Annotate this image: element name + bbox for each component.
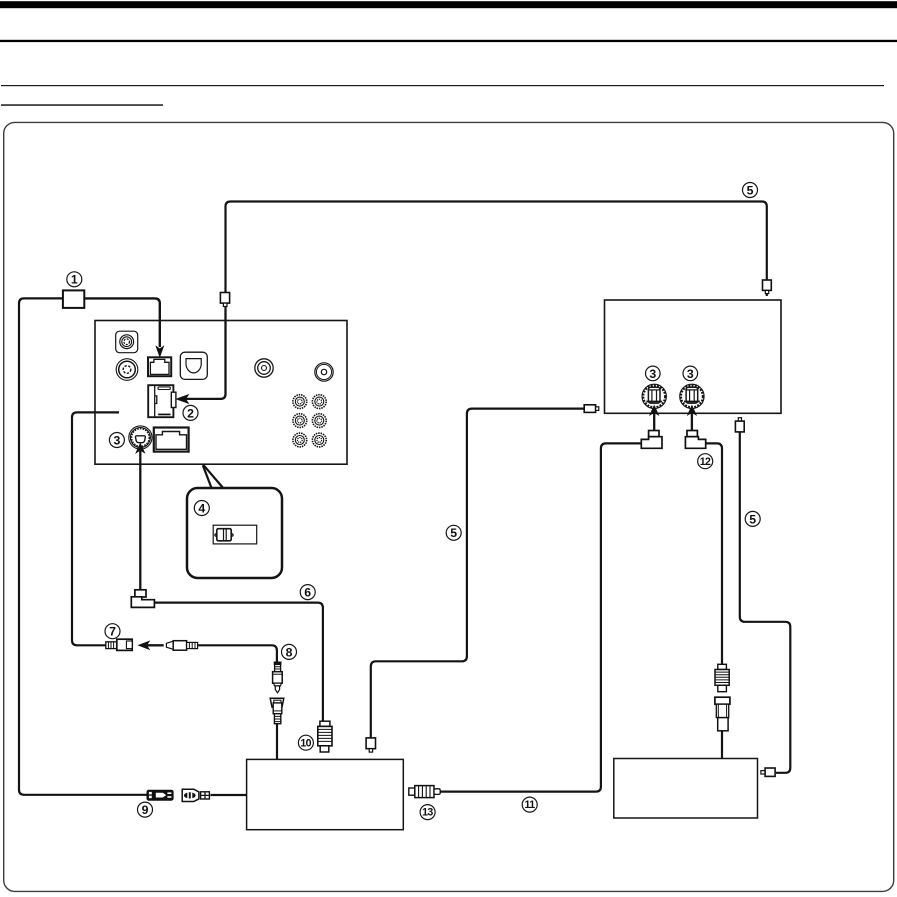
wire: item1 box left lead down-left to connector 9 xyxy=(19,298,148,794)
connector 10 multipin plug xyxy=(318,721,332,752)
multipin plug pointing down on cable 12 xyxy=(715,664,729,691)
svg-text:5: 5 xyxy=(749,512,756,526)
mini-DIN socket (cable 2 target) xyxy=(148,385,176,417)
connector 13 multipin plug xyxy=(409,786,440,798)
label 2 xyxy=(183,405,198,420)
svg-text:11: 11 xyxy=(525,799,536,811)
svg-text:5: 5 xyxy=(747,183,754,197)
label 5 top xyxy=(743,183,758,198)
svg-text:12: 12 xyxy=(700,456,711,468)
svg-text:2: 2 xyxy=(187,406,194,420)
left elbow plug under right box xyxy=(641,431,662,449)
svg-text:9: 9 xyxy=(142,803,149,817)
svg-text:5: 5 xyxy=(450,526,457,540)
label 12 xyxy=(698,454,713,469)
wire: arrow shaft into right DIN of right box xyxy=(691,413,693,431)
battery holder icon in bubble xyxy=(213,525,257,544)
page top thick rule xyxy=(0,1,897,8)
label 1 xyxy=(67,272,82,287)
plug into bottom-right box xyxy=(761,768,775,776)
label 13 xyxy=(420,805,435,820)
connector 7 assembly xyxy=(106,639,132,650)
svg-text:6: 6 xyxy=(304,586,311,600)
page second rule xyxy=(0,40,897,42)
arrow into RJ45 jack (cable 1) xyxy=(156,346,163,357)
arrow into left DIN socket xyxy=(650,406,659,415)
RCA jack grid 3x2 xyxy=(293,395,326,447)
svg-text:3: 3 xyxy=(113,433,120,447)
svg-text:13: 13 xyxy=(422,807,433,819)
wire: cable 2 drop to mini-DIN arrow xyxy=(185,310,226,399)
label 6 xyxy=(300,585,315,600)
DIN socket left in right box xyxy=(642,384,666,408)
large RCA jack center xyxy=(255,359,273,377)
mating socket pointing up xyxy=(270,698,284,723)
wire: cable 6 elbow to connector 10 xyxy=(154,603,323,722)
wire: item1 box right lead to head unit arrow xyxy=(84,298,160,347)
wire: cable 8 run xyxy=(198,645,277,662)
wire: cable 5 top run xyxy=(226,202,767,311)
connector 9 female spade xyxy=(147,790,173,800)
RJ45 jack (cable 1 target) xyxy=(148,357,171,376)
wire: cable 5 mid-left run with plug xyxy=(371,409,586,739)
wire: cable 11 run xyxy=(440,443,641,791)
svg-text:3: 3 xyxy=(649,367,656,381)
svg-text:4: 4 xyxy=(198,501,205,515)
item 1 square module xyxy=(63,290,84,308)
RCA jack below antenna xyxy=(116,359,138,381)
connector 9 male spade xyxy=(182,789,209,801)
bottom-right tuner box xyxy=(614,759,758,819)
DIN socket right in right box xyxy=(680,384,704,408)
wire: head unit stub down to connector 7 xyxy=(72,412,119,645)
label 9 xyxy=(138,802,153,817)
label 5 mid-left xyxy=(446,525,461,540)
svg-text:10: 10 xyxy=(300,737,311,749)
svg-text:1: 1 xyxy=(71,273,78,287)
plug above bottom-left box xyxy=(366,738,375,752)
RCA plug of cable 8 xyxy=(166,641,197,651)
right elbow plug under right box (12) xyxy=(685,431,705,449)
wire: connector 9 to bottom-left box xyxy=(211,794,247,796)
rectangular multipin jack right of (3) xyxy=(154,428,189,452)
plug on cable 5 top-left end xyxy=(220,293,229,307)
wire: cable 12 drop xyxy=(706,443,722,665)
label 3 head unit xyxy=(109,433,124,448)
arrow at connector 7 xyxy=(139,641,150,649)
label 10 xyxy=(298,735,313,750)
RCA plug pointing down (cable 8 lower) xyxy=(273,662,283,693)
label 4 xyxy=(194,501,209,516)
callout tail from head unit xyxy=(203,465,212,489)
arrow into mini-DIN (cable 2) xyxy=(176,395,188,404)
wire: joint into bottom-right box xyxy=(721,731,723,759)
arrow into right DIN socket xyxy=(688,406,697,415)
plug under right box (cable 5 right) xyxy=(735,418,744,432)
antenna jack on head unit xyxy=(116,331,138,353)
wire: arrow shaft into left DIN of right box xyxy=(653,413,655,431)
svg-text:8: 8 xyxy=(286,645,293,659)
head unit rear panel box xyxy=(95,321,347,465)
wire: arrow shaft into S-video jack xyxy=(139,450,141,590)
wire: lower joint into bottom-left box xyxy=(276,724,278,760)
label 3 left on right box xyxy=(646,366,661,381)
mating socket pointing up into bottom-right box xyxy=(715,697,730,731)
label 11 xyxy=(522,797,537,812)
monitor unit box (right) xyxy=(605,300,782,413)
svg-text:3: 3 xyxy=(687,367,694,381)
section heading underline xyxy=(1,104,163,106)
callout bubble (item 4) xyxy=(187,488,282,578)
large RCA jack right xyxy=(315,363,333,381)
circled labels xyxy=(67,183,760,820)
wire: cable 5 right run xyxy=(740,432,791,773)
arrow into S-video jack (cable 3) xyxy=(136,444,145,453)
label 5 right xyxy=(745,511,760,526)
svg-text:7: 7 xyxy=(109,625,116,639)
page third rule xyxy=(1,85,884,86)
label 3 right on right box xyxy=(683,366,698,381)
label 7 xyxy=(105,624,120,639)
optical Toslink jack xyxy=(180,352,207,379)
label 8 xyxy=(282,644,297,659)
bottom-left hideaway box xyxy=(247,759,404,829)
wire: arrow shaft at connector 7 xyxy=(147,644,164,646)
S-video round jack (3) xyxy=(129,426,152,449)
plug on cable 5 top-right end xyxy=(763,280,772,294)
elbow plug on S-video cable (6) xyxy=(131,590,154,608)
plug on cable 5 mid-left end xyxy=(584,405,599,413)
